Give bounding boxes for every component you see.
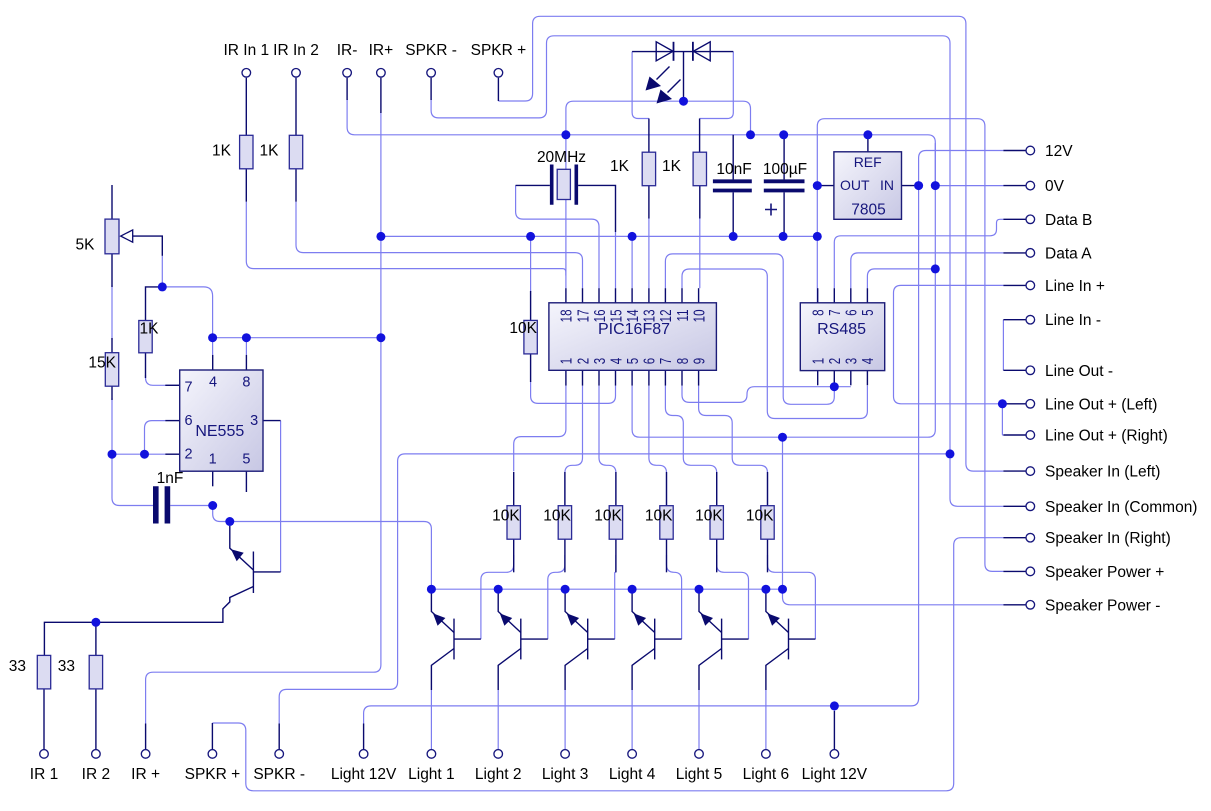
wire gnd437 dot down <box>782 437 784 589</box>
svg-text:10K: 10K <box>492 508 520 525</box>
stub terminal lineout_pr <box>1003 434 1025 436</box>
resistor R13 10K (Light 4) <box>660 506 673 540</box>
terminal spkin_c <box>1026 502 1035 511</box>
wire 0V to ground rail vertical <box>934 143 936 186</box>
wire gnd 454 line <box>279 454 950 724</box>
wire LED centre drop <box>683 52 685 102</box>
diode D1 photo arrow 1 <box>657 67 670 80</box>
transistor QL5 collector <box>699 649 722 691</box>
lead 10K1 bottom <box>513 537 515 572</box>
wire NE555 pin6 link <box>145 421 166 455</box>
terminal bottom spkm <box>275 750 284 759</box>
diode D2 (IR LED right) <box>693 42 710 61</box>
svg-text:5K: 5K <box>76 237 96 254</box>
node IR2 collector <box>91 618 100 627</box>
node gnd rail 100uF <box>779 130 788 139</box>
lead 10K4 bottom <box>666 537 668 572</box>
node gnd rail pin18 branch <box>561 130 570 139</box>
transistor QL1 arrow <box>433 613 445 625</box>
capacitor C2 10nF plates <box>713 181 752 190</box>
wire Q4 collector to Light 4 <box>631 690 633 749</box>
svg-text:Light 6: Light 6 <box>743 766 790 783</box>
wire Line In - to Line Out - <box>1002 320 1004 371</box>
resistor R14 10K (Light 5) <box>710 506 723 540</box>
svg-text:PIC16F87: PIC16F87 <box>598 321 670 338</box>
lead 5K bottom <box>111 254 113 287</box>
transistor QL2 emitter <box>498 593 521 632</box>
svg-text:Light 1: Light 1 <box>408 766 455 783</box>
terminal SPKR + top <box>494 69 503 78</box>
terminal SPKR - top <box>427 69 436 78</box>
stub terminal spkin_r <box>1003 537 1025 539</box>
stub terminal datab <box>1003 218 1025 220</box>
wire Q3 collector to Light 3 <box>564 690 566 749</box>
stub NE555 pin6 <box>165 420 179 422</box>
crystal X1 body <box>557 169 570 199</box>
svg-text:10K: 10K <box>509 320 537 337</box>
svg-text:Light 12V: Light 12V <box>802 766 868 783</box>
transistor Q1 collector <box>44 587 253 656</box>
transceiver U3 RS485 body <box>800 303 884 371</box>
terminal spkin_r <box>1026 533 1035 542</box>
transistor QL4 bar <box>654 619 656 660</box>
terminal linein_p <box>1026 281 1035 290</box>
stub PIC pin 5 bottom <box>631 370 633 385</box>
stub PIC pin 4 bottom <box>615 370 617 385</box>
stub terminal linein_m <box>1003 319 1025 321</box>
svg-text:Data A: Data A <box>1045 245 1092 262</box>
terminal IR+ <box>377 69 386 78</box>
resistor R3 15K <box>105 353 118 387</box>
terminal bottom l5 <box>695 750 704 759</box>
op-amp U1 NE555 body <box>180 370 263 471</box>
svg-text:10K: 10K <box>695 508 723 525</box>
lead 33-2 top <box>95 622 97 655</box>
stub PIC pin 13 <box>648 288 650 303</box>
terminal dataa <box>1026 249 1035 258</box>
stub 7805 OUT <box>817 185 834 187</box>
stub terminal spkin_c <box>1003 505 1025 507</box>
transistor QL6 base <box>789 638 816 640</box>
svg-text:IN: IN <box>880 177 894 193</box>
resistor R8 1K (LED 1) <box>642 152 655 186</box>
stub terminal spkpwr_p <box>1003 570 1025 572</box>
terminal lineout_pr <box>1026 431 1035 440</box>
svg-text:20MHz: 20MHz <box>537 149 586 166</box>
transistor Q1 bar <box>252 552 254 594</box>
lead SPKR+ stub <box>497 78 499 101</box>
node emitter gnd drop <box>778 585 787 594</box>
svg-text:3: 3 <box>842 358 860 365</box>
transistor QL5 base <box>722 638 749 640</box>
svg-text:SPKR +: SPKR + <box>471 42 527 59</box>
lead 10nF top <box>732 135 734 180</box>
wire pin6 to 10K4 <box>649 386 667 506</box>
svg-text:8: 8 <box>809 309 827 316</box>
terminal IR In 1 <box>242 69 251 78</box>
transistor QL1 base <box>454 638 481 640</box>
terminal bottom l2 <box>494 750 503 759</box>
wire 5V to PIC pin 14 <box>631 236 633 288</box>
stub PIC pin 15 <box>615 288 617 303</box>
resistor R2 1K (IR In 2) <box>289 135 302 169</box>
lead 10K pullup top <box>530 291 532 320</box>
terminal bottom l4 <box>628 750 637 759</box>
svg-text:9: 9 <box>689 358 707 365</box>
stub PIC pin 6 bottom <box>648 370 650 385</box>
lead 10K5 bottom <box>716 537 718 572</box>
stub RS485 pin 5 <box>866 288 868 303</box>
svg-text:7: 7 <box>185 380 193 396</box>
wire IR In 1 to PIC pin 18 <box>246 202 566 276</box>
stub NE555 pin7 <box>165 384 179 386</box>
lead 1K-555 bottom <box>145 353 147 378</box>
wire IR+ / 5V vertical <box>146 112 381 724</box>
wire Speaker Power - to gnd <box>783 589 1004 605</box>
transistor QL1 emitter <box>431 593 454 632</box>
stub terminal lineout_m <box>1003 369 1025 371</box>
svg-text:0V: 0V <box>1045 178 1065 195</box>
svg-text:10: 10 <box>689 309 707 322</box>
node gnd rail REF <box>863 130 872 139</box>
stub PIC pin 1 bottom <box>565 370 567 385</box>
svg-text:100µF: 100µF <box>763 161 807 178</box>
node 5V rail 100uF <box>779 232 788 241</box>
transistor QL4 collector <box>632 649 655 691</box>
lead crystal right to pin 15 <box>578 185 615 232</box>
stub PIC pin 3 bottom <box>598 370 600 385</box>
terminal bottom irp <box>141 750 150 759</box>
svg-text:5: 5 <box>242 452 250 468</box>
wire Q5 collector to Light 5 <box>698 690 700 749</box>
wire Q6 collector to Light 6 <box>765 690 767 749</box>
svg-text:15: 15 <box>606 309 624 322</box>
transistor QL3 arrow <box>567 613 579 625</box>
svg-text:1K: 1K <box>212 143 232 160</box>
capacitor C3 100uF plates <box>764 181 805 190</box>
svg-text:1: 1 <box>809 358 827 365</box>
lead 10K3 top <box>615 472 617 506</box>
stub terminal v0 <box>1003 185 1025 187</box>
svg-text:SPKR -: SPKR - <box>253 766 305 783</box>
svg-text:18: 18 <box>557 309 575 322</box>
node RS485 pin2 gnd <box>830 382 839 391</box>
svg-text:10K: 10K <box>645 508 673 525</box>
lead 10K4 top <box>666 472 668 506</box>
node emitter Q5 <box>628 585 637 594</box>
stub SPKR+ bottom <box>211 723 213 749</box>
svg-text:Speaker Power +: Speaker Power + <box>1045 564 1164 581</box>
wire Q1 collector to Light 1 <box>430 690 432 749</box>
svg-text:4: 4 <box>858 358 876 365</box>
resistor R4 1K (555) <box>139 321 152 353</box>
svg-text:10K: 10K <box>746 508 774 525</box>
wire 337 rail <box>213 337 381 339</box>
stub NE555 pin1 <box>212 471 214 486</box>
lead 10K pullup bottom <box>530 353 532 382</box>
stub PIC pin 17 <box>582 288 584 303</box>
node 555 pin1 <box>208 501 217 510</box>
diode D1 photo arrow 2 <box>668 80 681 93</box>
stub NE555 pin3 <box>263 420 281 422</box>
wire 10K4 to Q4 base <box>667 555 682 639</box>
transistor Q1 arrow <box>231 549 244 561</box>
transistor QL6 emitter <box>766 593 789 632</box>
svg-text:Line Out + (Left): Line Out + (Left) <box>1045 396 1157 413</box>
svg-text:3: 3 <box>250 413 258 429</box>
resistor R5 33 (IR 1) <box>37 655 50 689</box>
svg-text:1K: 1K <box>260 143 280 160</box>
node 15K timing <box>108 450 117 459</box>
wire right diode to 1K2 <box>700 52 734 119</box>
stub RS485 pin 4 bottom <box>866 371 868 386</box>
wire 12V terminal <box>919 151 1004 186</box>
svg-text:1: 1 <box>557 358 575 365</box>
svg-text:Speaker In (Right): Speaker In (Right) <box>1045 530 1171 547</box>
terminal v0 <box>1026 181 1035 190</box>
wire 10K1 to Q1 base <box>481 555 514 639</box>
transistor QL6 arrow <box>768 613 780 625</box>
terminal IR- <box>343 69 352 78</box>
wire emitter rail <box>431 588 782 590</box>
stub PIC pin 7 bottom <box>664 370 666 385</box>
terminal spkpwr_p <box>1026 567 1035 576</box>
wire RS485 gnd pins line <box>818 386 851 388</box>
svg-text:Line Out -: Line Out - <box>1045 363 1113 380</box>
svg-text:5: 5 <box>623 358 641 365</box>
lead 100uF bottom <box>783 192 785 236</box>
node line out left <box>998 399 1007 408</box>
svg-text:Light 3: Light 3 <box>542 766 589 783</box>
terminal spkin_l <box>1026 467 1035 476</box>
wire 10K pullup to pin 4 <box>531 381 616 403</box>
wire SPKR+ top to Speaker In Left <box>498 16 1003 471</box>
wire pin2 to 10K2 <box>565 386 583 506</box>
transistor QL2 collector <box>498 649 521 691</box>
svg-text:SPKR +: SPKR + <box>185 766 241 783</box>
wire 1K2 to pin10 <box>699 218 701 288</box>
wire SPKR- top to speaker common net <box>431 36 950 454</box>
svg-text:6: 6 <box>842 309 860 316</box>
stub SPKR- bottom <box>278 724 280 750</box>
node gnd rail LED branch <box>746 130 755 139</box>
resistor R12 10K (Light 3) <box>609 506 622 540</box>
svg-text:10K: 10K <box>594 508 622 525</box>
svg-text:8: 8 <box>673 358 691 365</box>
svg-text:5: 5 <box>858 309 876 316</box>
stub PIC pin 11 <box>681 288 683 303</box>
terminal bottom ir2 <box>92 750 101 759</box>
lead 100uF top <box>783 135 785 180</box>
node 12V at IN <box>914 181 923 190</box>
wire pin12 to RS485 enable <box>665 254 834 404</box>
svg-text:33: 33 <box>58 658 75 675</box>
terminal bottom l3 <box>561 750 570 759</box>
node emitter Q4 <box>561 585 570 594</box>
transistor QL3 bar <box>587 619 589 660</box>
transistor QL4 base <box>655 638 682 640</box>
wire pin1 to 10K1 <box>514 386 566 472</box>
wire light12v right stub <box>833 706 835 711</box>
lead 1K1 top <box>648 119 650 153</box>
svg-text:1nF: 1nF <box>157 470 184 487</box>
lead 10K1 top <box>513 472 515 506</box>
stub terminal v12 <box>1003 150 1025 152</box>
wire crystal right light <box>615 232 617 288</box>
terminal bottom l6 <box>762 750 771 759</box>
resistor R11 10K (Light 2) <box>558 506 571 540</box>
stub terminal spkpwr_m <box>1003 604 1025 606</box>
lead 15K bottom <box>111 385 113 400</box>
svg-text:IR +: IR + <box>131 766 160 783</box>
node 5V rail OUT drop <box>813 232 822 241</box>
wire pin8 to RS485 enable <box>682 386 818 403</box>
wire 5K wiper <box>133 236 163 256</box>
svg-text:33: 33 <box>9 658 26 675</box>
svg-text:Speaker Power -: Speaker Power - <box>1045 597 1160 614</box>
wire Data B to RS485 pin 7 <box>834 219 1003 288</box>
transistor QL4 arrow <box>634 613 646 625</box>
wire pin7 to 10K5 <box>665 386 716 506</box>
svg-text:10nF: 10nF <box>716 161 751 178</box>
microcontroller U2 PIC16F87 body <box>549 303 717 371</box>
stub 7805 REF <box>867 135 869 152</box>
svg-text:Speaker In (Left): Speaker In (Left) <box>1045 464 1160 481</box>
wire 1K to 555 pin7 <box>146 375 180 385</box>
crystal X1 20MHz bars <box>552 165 577 205</box>
wire speaker common to Speaker In Common <box>950 454 1003 506</box>
wire 0V line <box>935 185 1003 187</box>
svg-text:7: 7 <box>656 358 674 365</box>
stub NE555 pin5 <box>245 471 247 492</box>
svg-text:NE555: NE555 <box>195 423 244 440</box>
lead 1K1 bottom <box>648 186 650 219</box>
svg-text:12V: 12V <box>1045 143 1073 160</box>
transistor QL1 collector <box>431 649 454 691</box>
svg-text:IR In 1: IR In 1 <box>223 42 269 59</box>
lead 10K2 bottom <box>564 537 566 572</box>
wire IR- to ground rail <box>347 99 935 186</box>
terminal linein_m <box>1026 315 1035 324</box>
transistor QL6 collector <box>766 649 789 691</box>
capacitor C1 1nF plates <box>156 486 168 523</box>
transistor QL2 base <box>521 638 548 640</box>
wire 0V down to RS485 pin5 and PIC pin5 <box>632 186 935 438</box>
stub PIC pin 2 bottom <box>582 370 584 385</box>
resistor R10 10K (Light 1) <box>507 506 520 540</box>
node 5V rail IR+ <box>376 232 385 241</box>
node 5V rail 10nF <box>729 232 738 241</box>
lead IR In 2 terminal <box>295 78 297 136</box>
svg-text:1: 1 <box>209 452 217 468</box>
transistor QL5 emitter <box>699 593 722 632</box>
wire 10K3 to Q3 base <box>615 555 616 639</box>
node wiper 1K junction <box>158 282 167 291</box>
svg-text:Light 12V: Light 12V <box>331 766 397 783</box>
stub Light12V right <box>833 711 835 749</box>
wire Speaker In Right to bottom <box>212 538 1003 791</box>
wire NE555 pin2 link <box>112 453 165 455</box>
node 5V rail pullup <box>526 232 535 241</box>
terminal bottom l12b <box>830 750 839 759</box>
resistor R1 1K (IR In 1) <box>240 135 253 169</box>
stub IR+ bottom <box>145 724 147 750</box>
svg-text:14: 14 <box>623 309 641 322</box>
wire Line Out + pair <box>1002 404 1003 435</box>
stub terminal dataa <box>1003 252 1025 254</box>
svg-text:Line In +: Line In + <box>1045 278 1105 295</box>
wire 555 junction to pins 4 8 <box>162 287 212 338</box>
wire 5V rail <box>381 235 817 237</box>
lead IR In 2 resistor bottom <box>295 169 297 202</box>
node 555 pin6 pin2 <box>140 450 149 459</box>
svg-text:REF: REF <box>854 154 882 170</box>
wire 12V down to light rail <box>364 186 919 724</box>
lead IR- stub <box>346 78 348 100</box>
wire 15K to 1nF <box>112 398 153 506</box>
wire 10K pullup top <box>530 236 532 292</box>
wire left diode to 1K1 <box>632 52 649 119</box>
node emitter Q3 <box>494 585 503 594</box>
lead IR In 1 terminal <box>245 78 247 136</box>
stub 7805 IN <box>902 185 919 187</box>
stub PIC pin 12 <box>664 288 666 303</box>
svg-text:OUT: OUT <box>840 177 870 193</box>
terminal spkpwr_m <box>1026 601 1035 610</box>
lead 10K5 top <box>716 472 718 506</box>
lead 5K top <box>111 185 113 219</box>
transistor QL3 collector <box>565 649 588 691</box>
stub NE555 pin8 <box>245 355 247 370</box>
wire LED junction net to pin 18 and ground <box>566 101 751 288</box>
node OUT 5V <box>813 181 822 190</box>
wire 5K to 15K <box>111 285 113 340</box>
stub terminal spkin_l <box>1003 470 1025 472</box>
stub RS485 pin 1 bottom <box>817 371 819 386</box>
node 5V rail pin14 <box>628 232 637 241</box>
stub terminal linein_p <box>1003 284 1025 286</box>
lead 10K6 bottom <box>767 537 769 572</box>
terminal v12 <box>1026 146 1035 155</box>
stub PIC pin 8 bottom <box>681 370 683 385</box>
wire 7805 OUT 5V distribution <box>817 119 1003 572</box>
node gnd437 branch <box>778 433 787 442</box>
node 0V <box>931 181 940 190</box>
capacitor C3 polarity plus <box>765 204 777 216</box>
stub PIC pin 10 <box>698 288 700 303</box>
transistor QL2 bar <box>520 619 522 660</box>
lead IR In 1 resistor bottom <box>245 169 247 202</box>
lead 10K3 bottom <box>615 537 617 572</box>
svg-text:1K: 1K <box>610 158 630 175</box>
svg-text:11: 11 <box>673 309 691 321</box>
svg-text:Light 2: Light 2 <box>475 766 522 783</box>
lead 10nF bottom <box>732 192 734 236</box>
resistor R15 10K (Light 6) <box>761 506 774 540</box>
svg-text:Data B: Data B <box>1045 212 1092 229</box>
svg-text:IR-: IR- <box>337 42 358 59</box>
lead 33-1 bottom <box>43 688 45 749</box>
wire Line In + to Line Out + <box>894 285 1004 403</box>
svg-text:10K: 10K <box>543 508 571 525</box>
svg-text:Line Out + (Right): Line Out + (Right) <box>1045 428 1168 445</box>
wire RS485 pin2 stub join <box>833 378 835 387</box>
terminal bottom l12a <box>359 750 368 759</box>
regulator U4 7805 body <box>834 152 902 220</box>
svg-text:4: 4 <box>606 358 624 365</box>
transistor QL2 arrow <box>500 613 512 625</box>
svg-text:Line In -: Line In - <box>1045 312 1101 329</box>
